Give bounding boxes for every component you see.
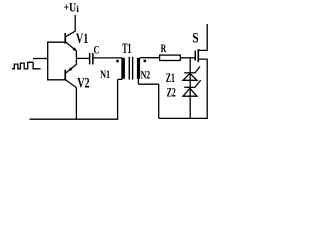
svg-text:Z1: Z1: [166, 71, 175, 85]
transistor V1 base bar: [64, 33, 66, 44]
wire secondary bottom return: [138, 79, 158, 119]
wire base rung to V1: [47, 41, 65, 43]
transformer N2 polarity dot: [144, 60, 147, 63]
wire V2 emitter from node: [75, 58, 77, 64]
zener Z1 tail: [195, 66, 200, 72]
transformer N1 polarity dot: [116, 60, 119, 63]
svg-text:V1: V1: [76, 31, 88, 47]
transistor V1 emitter lead: [66, 42, 77, 51]
resistor R body: [160, 55, 181, 60]
svg-text:R: R: [161, 41, 167, 55]
transistor V2 emitter arrow: [68, 67, 73, 71]
wire R to gate: [180, 57, 194, 59]
svg-text:V2: V2: [77, 76, 89, 92]
capacitor C plates: [89, 53, 91, 64]
transistor V2 base bar: [64, 70, 66, 81]
transformer T1 primary winding bar: [121, 58, 125, 79]
svg-text:i: i: [76, 5, 79, 15]
wire V2 collector down: [75, 87, 77, 119]
mosfet S source terminal: [199, 59, 207, 119]
svg-text:Z2: Z2: [167, 86, 176, 100]
svg-text:+U: +U: [64, 0, 77, 14]
svg-text:C: C: [94, 44, 100, 56]
wire zener chain axis: [189, 58, 191, 118]
wire node to capacitor: [76, 57, 89, 59]
svg-text:N1: N1: [100, 67, 110, 81]
transistor V2 emitter lead: [66, 64, 77, 73]
zener Z2 cathode bar: [184, 86, 195, 88]
wire +Ui to V1 collector: [74, 15, 76, 31]
wire bottom right: [159, 117, 208, 119]
wire base ladder vertical: [47, 42, 49, 81]
wire bottom left: [30, 118, 119, 120]
wire V1 emitter to node: [75, 51, 77, 59]
wire input to base ladder: [33, 58, 48, 60]
mosfet S gate bar: [195, 51, 197, 61]
transformer T1 core lines: [129, 57, 130, 80]
wire base rung to V2: [47, 79, 65, 81]
zener Z2 tail: [195, 80, 201, 87]
transformer T1 secondary winding bar: [137, 58, 140, 79]
mosfet S channel bar: [198, 49, 200, 62]
mosfet S drain terminal: [199, 24, 207, 51]
zener Z1 cathode bar: [184, 72, 196, 74]
zener Z1 triangle: [183, 73, 197, 80]
zener Z2 triangle: [183, 88, 197, 96]
transistor V1 emitter arrow: [73, 47, 78, 51]
wire primary return: [118, 79, 123, 119]
transistor V2 collector lead: [66, 80, 77, 88]
wire capacitor to transformer: [94, 57, 123, 59]
transistor V1 collector lead: [66, 31, 76, 36]
svg-text:S: S: [192, 31, 198, 47]
svg-text:N2: N2: [141, 67, 151, 81]
input square-wave symbol: [12, 62, 41, 69]
svg-text:T1: T1: [122, 41, 131, 57]
wire secondary top to R: [140, 57, 160, 59]
